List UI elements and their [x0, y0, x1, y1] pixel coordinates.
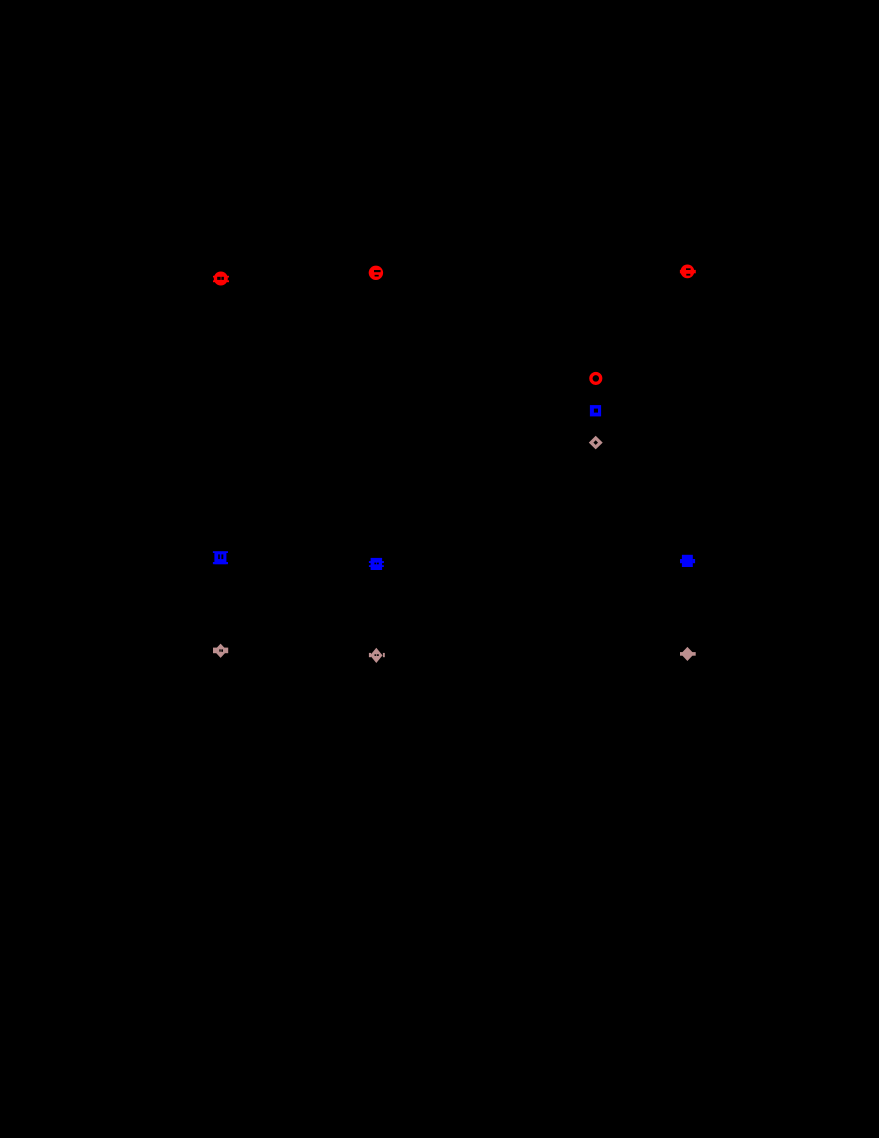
red series point 3: [680, 265, 696, 279]
blue series point 3: [680, 555, 695, 567]
red series point 2: [369, 266, 383, 280]
tan series point 1: [213, 644, 228, 658]
red series point 1: [213, 272, 229, 286]
blue series point 1: [213, 551, 228, 564]
tan series point 3: [680, 647, 696, 661]
legend key: blue square: [590, 405, 601, 416]
legend key: red open circle: [591, 374, 601, 384]
blue series point 2: [369, 558, 384, 570]
legend key: tan diamond: [589, 436, 603, 450]
tan series point 2: [369, 648, 385, 663]
